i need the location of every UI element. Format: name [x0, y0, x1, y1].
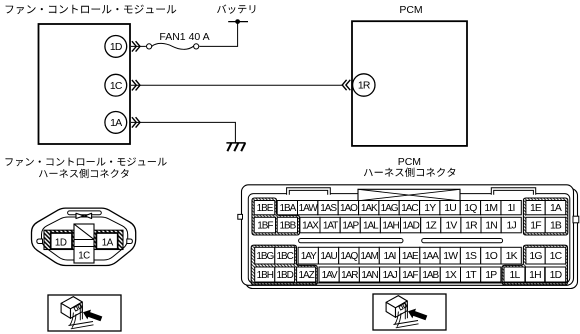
pin 1BB — [277, 217, 297, 233]
pin 1AK — [359, 201, 379, 215]
svg-text:1C: 1C — [110, 81, 123, 92]
fan control module label — [6, 5, 177, 15]
pin 1I — [501, 201, 521, 215]
middle guide slot right — [422, 239, 503, 243]
svg-text:1AG: 1AG — [381, 203, 399, 214]
svg-text:1BE: 1BE — [257, 203, 274, 214]
svg-text:1A: 1A — [550, 203, 562, 214]
svg-text:1AB: 1AB — [422, 270, 439, 281]
wire 1A to ground — [131, 122, 235, 142]
connector latch bowtie — [76, 213, 92, 218]
pin 1AQ — [339, 247, 359, 264]
pin 1AO — [338, 201, 358, 215]
svg-text:1AU: 1AU — [320, 251, 337, 262]
pin 1F — [526, 217, 545, 233]
ground — [226, 143, 245, 151]
svg-text:1R: 1R — [358, 81, 371, 92]
svg-text:1O: 1O — [485, 251, 498, 262]
connector inner outline — [42, 217, 128, 260]
svg-text:1V: 1V — [445, 221, 457, 232]
svg-text:1BB: 1BB — [280, 221, 297, 232]
right side tab — [573, 216, 579, 223]
svg-text:1BD: 1BD — [277, 270, 294, 281]
svg-text:1X: 1X — [445, 270, 457, 281]
removal icon box left — [48, 295, 121, 331]
svg-text:1S: 1S — [465, 251, 477, 262]
pin 1BH — [255, 267, 275, 282]
svg-text:1Z: 1Z — [425, 221, 437, 232]
pin 1R — [461, 217, 481, 233]
pin 1S — [460, 247, 480, 264]
svg-text:PCM: PCM — [398, 156, 421, 168]
pin 1C — [545, 247, 566, 264]
svg-text:1AZ: 1AZ — [298, 270, 314, 281]
pin 1BE — [254, 201, 275, 215]
hatched group bottom-left (1BG,1BC,1BH,1BD,1AZ) — [251, 245, 317, 285]
module pin 1C — [105, 74, 127, 96]
pin 1U — [440, 201, 460, 215]
pin 1J — [501, 217, 521, 233]
wire 1D to fuse and battery — [131, 22, 238, 47]
PCM connector label line2 — [364, 168, 456, 178]
svg-text:1D: 1D — [55, 238, 67, 249]
removal icon box right — [373, 294, 446, 330]
PCM housing inner — [248, 194, 570, 283]
svg-text:1AJ: 1AJ — [383, 270, 398, 281]
center keyway and cavity 1C — [74, 224, 94, 263]
pin 1P — [481, 267, 501, 282]
pin 1E — [526, 201, 545, 215]
svg-text:1W: 1W — [443, 251, 458, 262]
svg-text:1AS: 1AS — [320, 203, 337, 214]
pin 1V — [441, 217, 461, 233]
svg-text:1AN: 1AN — [361, 270, 378, 281]
left side tab — [238, 214, 243, 219]
pin 1AT — [320, 217, 340, 233]
pin 1AB — [420, 267, 440, 282]
pin 1Q — [460, 201, 480, 215]
pin 1AC — [399, 201, 419, 215]
svg-text:1AF: 1AF — [402, 270, 418, 281]
svg-text:1R: 1R — [465, 221, 478, 232]
battery label — [217, 5, 255, 14]
svg-text:1F: 1F — [530, 221, 541, 232]
svg-text:1BG: 1BG — [256, 251, 274, 262]
pin 1BA — [277, 201, 297, 215]
pin 1Y — [420, 201, 440, 215]
left index tab — [37, 239, 43, 244]
pin 1G — [526, 247, 545, 264]
wire 1C to PCM — [131, 84, 342, 86]
center keyway X-box — [358, 189, 460, 201]
pin 1AM — [359, 247, 379, 264]
middle guide slot left — [299, 239, 403, 243]
pin 1AE — [400, 247, 420, 264]
hatched group bottom-right (1G,1C,1L,1H,1D) — [502, 245, 567, 285]
svg-text:1AX: 1AX — [302, 221, 319, 232]
svg-text:1J: 1J — [507, 221, 517, 232]
svg-text:1T: 1T — [465, 270, 477, 281]
pin 1AJ — [380, 267, 400, 282]
svg-text:FAN1 40 A: FAN1 40 A — [159, 31, 209, 43]
pin 1AX — [300, 217, 320, 233]
svg-text:1M: 1M — [484, 203, 497, 214]
svg-text:1AP: 1AP — [342, 221, 359, 232]
svg-text:1G: 1G — [529, 251, 542, 262]
fan control module box — [39, 24, 131, 144]
svg-text:1B: 1B — [550, 221, 562, 232]
svg-text:1BF: 1BF — [257, 221, 273, 232]
pin 1AF — [400, 267, 420, 282]
svg-text:PCM: PCM — [399, 4, 422, 16]
module pin 1D — [105, 36, 127, 58]
right index tab — [127, 239, 133, 244]
module pin 1A — [105, 112, 127, 134]
svg-text:1C: 1C — [550, 251, 563, 262]
fan module harness connector outline — [32, 208, 136, 265]
pin 1M — [481, 201, 501, 215]
pin 1AL — [360, 217, 380, 233]
pin 1BF — [254, 217, 275, 233]
svg-text:1AQ: 1AQ — [340, 251, 358, 262]
svg-text:1AC: 1AC — [401, 203, 418, 214]
pin 1O — [481, 247, 501, 264]
pin 1BG — [255, 247, 275, 264]
svg-text:1P: 1P — [485, 270, 497, 281]
fan control module connector label line1 — [6, 157, 167, 166]
pin 1AA — [420, 247, 440, 264]
PCM housing shadow — [246, 189, 578, 289]
svg-text:1AV: 1AV — [322, 270, 338, 281]
svg-text:1AW: 1AW — [299, 203, 319, 214]
svg-text:1K: 1K — [506, 251, 518, 262]
cavity 1A — [96, 233, 117, 249]
cavity 1D — [51, 233, 72, 249]
connector chevrons 1A — [132, 117, 140, 127]
svg-text:1AA: 1AA — [422, 251, 439, 262]
svg-text:1BA: 1BA — [280, 203, 297, 214]
pin 1BD — [275, 267, 295, 282]
pin 1BC — [275, 247, 295, 264]
hatched group top-left (1BE,1BF,1BB) — [252, 198, 300, 235]
pin 1W — [440, 247, 460, 264]
svg-text:1C: 1C — [78, 251, 90, 262]
white interior of top-right group — [526, 201, 566, 233]
pin 1AG — [379, 201, 399, 215]
svg-text:1AR: 1AR — [341, 270, 358, 281]
svg-text:1AM: 1AM — [360, 251, 378, 262]
connector latch slot — [68, 211, 102, 215]
pin 1Z — [421, 217, 441, 233]
pin 1K — [501, 247, 521, 264]
pin 1AP — [340, 217, 360, 233]
svg-text:1E: 1E — [530, 203, 542, 214]
svg-text:1AL: 1AL — [363, 221, 379, 232]
PCM housing outer — [242, 185, 574, 285]
pin 1L — [504, 267, 525, 282]
svg-text:1L: 1L — [510, 270, 521, 281]
pin 1X — [440, 267, 460, 282]
svg-text:1D: 1D — [110, 42, 122, 53]
svg-text:1AD: 1AD — [402, 221, 419, 232]
PCM box — [352, 21, 467, 146]
pin 1AR — [339, 267, 359, 282]
svg-text:1AH: 1AH — [382, 221, 399, 232]
svg-text:1AY: 1AY — [301, 251, 317, 262]
svg-text:1AO: 1AO — [340, 203, 358, 214]
svg-text:1BH: 1BH — [257, 270, 274, 281]
pin 1AS — [318, 201, 338, 215]
svg-text:1U: 1U — [444, 203, 456, 214]
battery junction dot — [235, 19, 240, 24]
svg-text:1AE: 1AE — [402, 251, 419, 262]
pin 1AI — [379, 247, 399, 264]
pin 1AU — [318, 247, 338, 264]
pin 1T — [461, 267, 481, 282]
top-left latch tab — [287, 188, 331, 195]
pin 1N — [481, 217, 501, 233]
svg-text:1AK: 1AK — [361, 203, 378, 214]
pin 1D — [545, 267, 566, 282]
svg-text:1N: 1N — [485, 221, 497, 232]
svg-text:1Q: 1Q — [464, 203, 477, 214]
hatched group top-right (1E,1A,1F,1B) — [523, 198, 567, 235]
svg-text:1AT: 1AT — [323, 221, 338, 232]
white interior of bottom-right group — [504, 247, 566, 282]
svg-text:1A: 1A — [110, 118, 122, 129]
pin 1AN — [359, 267, 379, 282]
fuse FAN1 40 A — [147, 43, 199, 49]
connector chevrons 1D — [132, 41, 140, 51]
fan control module connector label line2 — [39, 169, 129, 178]
svg-text:1BC: 1BC — [277, 251, 294, 262]
pin 1A — [545, 201, 566, 215]
svg-text:1I: 1I — [508, 203, 515, 214]
pin 1AY — [298, 247, 318, 264]
connector chevrons 1C — [132, 80, 140, 90]
svg-text:1AI: 1AI — [383, 251, 395, 262]
svg-text:1Y: 1Y — [424, 203, 436, 214]
svg-text:1D: 1D — [550, 270, 562, 281]
svg-text:1H: 1H — [529, 270, 541, 281]
pin 1B — [545, 217, 566, 233]
pin 1AW — [298, 201, 318, 215]
svg-text:1A: 1A — [102, 238, 114, 249]
pin 1AH — [380, 217, 400, 233]
pin 1H — [525, 267, 544, 282]
pin 1AV — [319, 267, 339, 282]
connector chevrons 1R — [342, 80, 350, 90]
pin 1AD — [401, 217, 421, 233]
top-right latch tab — [491, 188, 535, 195]
battery node bar — [228, 21, 248, 23]
PCM pin 1R — [353, 74, 375, 96]
pin 1AZ — [297, 267, 316, 282]
hatched pin band — [44, 230, 123, 249]
